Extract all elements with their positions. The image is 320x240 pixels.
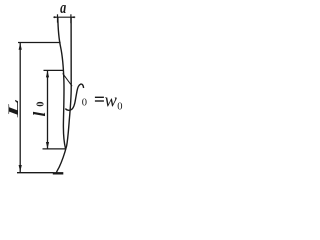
l0 dimension line [47, 70, 49, 148]
svg-text:0: 0 [117, 102, 122, 113]
tick right of a [70, 14, 72, 23]
leader stroke for f0 between curve and beam [63, 73, 72, 86]
arrowhead a left [54, 16, 58, 18]
svg-text:0: 0 [35, 101, 46, 106]
beam: straight upper part and lower left sweep [56, 17, 71, 173]
tick left of a [57, 14, 59, 22]
svg-text:w: w [105, 91, 118, 111]
L top extension line [18, 42, 61, 44]
foot serif bar at beam base [53, 172, 64, 174]
l0 top extension line [44, 69, 65, 71]
arrowhead L down [19, 165, 22, 172]
arrowhead l0 down [46, 142, 49, 149]
arrowhead L up [19, 43, 22, 50]
label f0 (swash italic f drawn as path) [65, 84, 83, 110]
label l0 [30, 101, 49, 116]
L bottom extension line [17, 172, 54, 174]
svg-text:l: l [30, 112, 49, 117]
arrowhead l0 up [46, 71, 49, 78]
dimension line a [53, 16, 75, 18]
equals sign [95, 97, 104, 102]
svg-text:L: L [5, 98, 22, 118]
arrowhead a right [71, 16, 75, 18]
L dimension line [19, 43, 21, 173]
svg-text:0: 0 [82, 98, 87, 109]
l0 bottom extension line [43, 148, 67, 150]
curve: initially straight chord (upper curved stroke) [58, 17, 66, 148]
svg-text:a: a [60, 0, 66, 18]
